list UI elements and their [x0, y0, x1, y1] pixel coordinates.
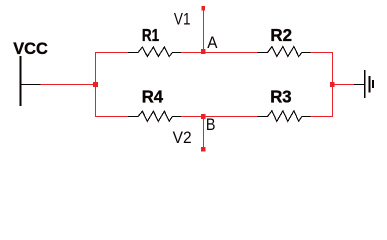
junction dot ground tap: [330, 82, 335, 87]
wire ground tap (red part): [333, 84, 354, 86]
resistor R2: [258, 47, 311, 57]
junction dot node A: [201, 49, 205, 54]
wire top rail left segment: [95, 52, 128, 54]
svg-text:VCC: VCC: [13, 39, 48, 58]
junction dot VCC/left rail: [93, 82, 98, 87]
wire left vertical rail: [95, 52, 97, 117]
svg-text:R4: R4: [142, 86, 164, 106]
wire right vertical rail: [332, 52, 334, 117]
terminal dot V1: [201, 6, 205, 11]
ground symbol: [354, 70, 374, 98]
svg-text:V2: V2: [173, 129, 192, 147]
svg-text:A: A: [207, 33, 218, 52]
wire bottom rail left segment: [95, 116, 128, 118]
wire top rail middle segment: [181, 52, 258, 54]
wire bottom rail right segment: [310, 116, 333, 118]
wire node B stub (vertical, to V2 terminal): [203, 116, 205, 150]
VCC power symbol: [21, 56, 41, 106]
wire bottom rail middle segment: [181, 116, 258, 118]
wire node A stub (vertical, to V1 terminal): [203, 8, 205, 52]
resistor R3: [258, 111, 311, 122]
terminal dot V2: [201, 147, 205, 152]
resistor R1: [128, 47, 181, 57]
svg-text:R2: R2: [270, 25, 292, 45]
wire top rail right segment: [310, 52, 333, 54]
svg-text:V1: V1: [174, 10, 191, 28]
svg-text:R1: R1: [142, 25, 160, 45]
resistor R4: [128, 111, 181, 121]
svg-text:R3: R3: [270, 86, 291, 106]
wire VCC feed (red part): [41, 84, 96, 86]
junction dot node B: [201, 114, 205, 119]
svg-text:B: B: [206, 115, 216, 134]
